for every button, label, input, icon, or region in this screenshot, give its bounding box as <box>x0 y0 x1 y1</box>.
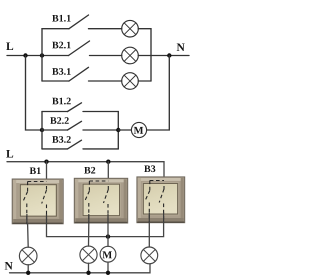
wire B3 left pole through frame <box>148 213 150 224</box>
wire dashed link inside box B1 <box>28 181 47 183</box>
wire lamp E2 to bus <box>138 55 151 57</box>
wire lamp E5 to N <box>88 263 90 273</box>
junction dot at (118.3,130) <box>116 128 120 132</box>
wire B1 left pole through frame <box>26 214 28 224</box>
node L (upper) <box>6 42 13 50</box>
wire vertical left bus rows1-3 <box>41 29 43 81</box>
motor M1 <box>131 122 146 137</box>
switch B3.1 <box>52 68 70 75</box>
wire lamp E3 to bus <box>138 80 151 82</box>
wire feed into B2 <box>107 162 109 186</box>
switch pole B3.1 (dashed, controls lamp) <box>149 181 151 192</box>
wire dot to motor <box>118 129 131 131</box>
wire B1 left pole to lamp E4 <box>27 224 30 247</box>
switch pole B1.1 (dashed, controls lamp) <box>27 182 29 193</box>
wire N lower horizontal <box>10 264 151 273</box>
junction dot N-E5 <box>86 271 90 275</box>
wire dashed link inside box B3 <box>150 180 164 182</box>
lamp E3 <box>122 73 139 90</box>
junction dot on N <box>167 53 171 57</box>
lamp E5 <box>80 246 97 263</box>
wire N horizontal <box>151 55 189 57</box>
wire dot to motor M2 <box>107 237 109 247</box>
junction dot N-M2 <box>106 271 110 275</box>
wire motor to N bus <box>147 56 170 131</box>
switch B1.1 <box>52 15 70 22</box>
junction dot N-E4 <box>26 271 30 275</box>
wire right bus lamps <box>150 29 152 81</box>
junction dot motor node <box>106 234 110 238</box>
wire right merge bus rows4-6 <box>117 112 119 149</box>
switch B1.2 <box>52 98 71 105</box>
wire vertical left bus rows4-6 <box>41 112 43 149</box>
wire L lower horizontal <box>7 162 164 177</box>
label B3 <box>144 165 155 172</box>
junction dot on L at x=25.5 <box>23 53 27 57</box>
junction dot feed B2 <box>106 160 110 164</box>
switch box B2 <box>74 178 127 223</box>
junction dot at (42,130) <box>40 128 44 132</box>
wire lamp E1 to bus <box>138 28 151 30</box>
switch B2.1 <box>52 42 70 49</box>
switch pole B2.2 (dashed, controls motor) <box>107 186 109 190</box>
lamp E6 <box>141 247 158 264</box>
node N (lower) <box>5 262 13 270</box>
wire B2 left pole through frame <box>88 214 90 224</box>
switch pole B2.1 (dashed, controls lamp) <box>88 181 90 192</box>
lamp E1 <box>122 20 139 37</box>
wire motor M2 to N <box>107 262 109 273</box>
wire B3 left pole to lamp E6 <box>148 223 150 247</box>
junction dot feed B1 <box>44 160 48 164</box>
switch pole B3.2 (dashed, controls motor) <box>163 186 165 190</box>
motor bus wire (poles .2 common) <box>47 223 164 237</box>
wire lamp E4 to N <box>27 265 29 273</box>
lamp E4 <box>19 247 37 265</box>
switch box B1 <box>12 179 63 224</box>
label B1 <box>30 167 41 174</box>
wire B2 left pole to lamp E5 <box>88 223 90 246</box>
switch B2.2 <box>50 117 69 124</box>
wire feed into B3 (continuation) <box>163 177 165 186</box>
internal dashed switch symbols <box>23 181 164 224</box>
motor M2 <box>100 246 116 262</box>
wire feed into B1 <box>46 162 48 186</box>
wire B3 right pole through frame <box>163 213 165 224</box>
switch pole B1.2 (dashed, controls motor) <box>46 186 48 191</box>
wire B1 right pole through frame <box>46 214 48 224</box>
wire L feed horizontal <box>7 55 69 57</box>
node L (lower) <box>6 150 13 158</box>
wire dashed link inside box B2 <box>89 180 108 182</box>
switch B3.2 <box>52 136 71 143</box>
node N (upper) <box>177 43 185 51</box>
junction dot on L at x=42 <box>40 53 44 57</box>
wire B2 right pole through frame <box>107 214 109 224</box>
label B2 <box>84 167 95 174</box>
switch box B3 <box>137 177 185 223</box>
label M2 <box>102 251 111 258</box>
wire B2 right pole down to dot <box>107 223 109 237</box>
wire vertical feed to lower switch group <box>26 56 43 131</box>
lamp E2 <box>122 47 139 64</box>
